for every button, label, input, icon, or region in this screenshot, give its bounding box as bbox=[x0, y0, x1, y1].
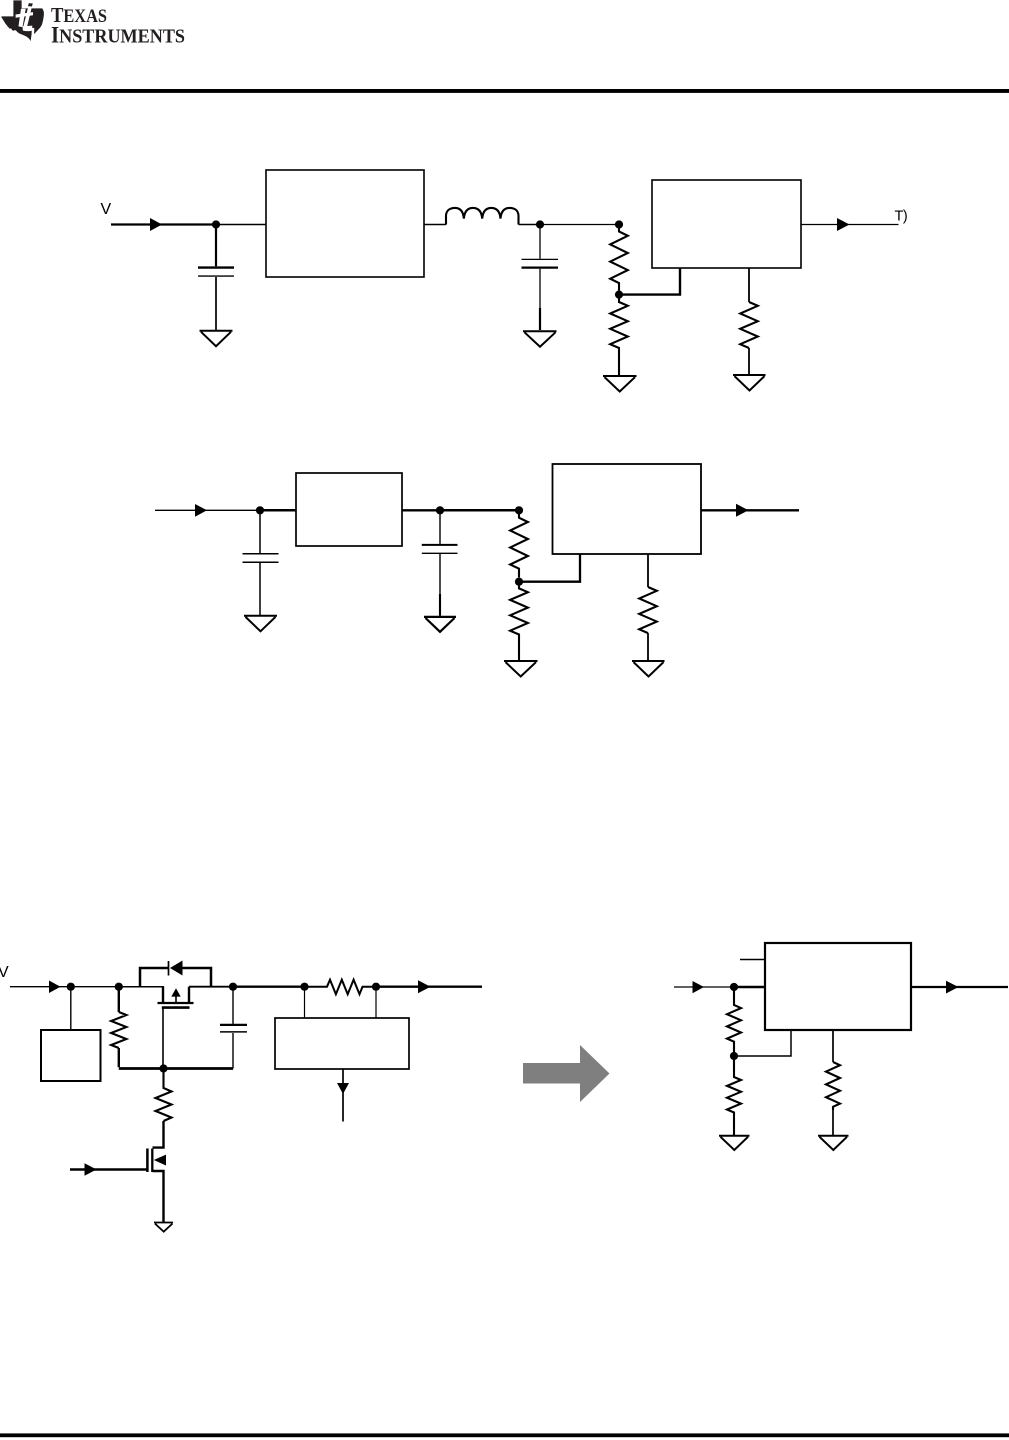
ground under C1 bbox=[200, 331, 233, 347]
wire output bbox=[376, 986, 482, 988]
wire body-diode branch left bbox=[140, 968, 168, 987]
top rule bbox=[0, 89, 1009, 93]
wire input bbox=[155, 509, 260, 511]
current output arrowhead bbox=[337, 1083, 349, 1094]
wire U2 bias to R3 bbox=[748, 268, 750, 302]
wire node to U1 bbox=[734, 986, 765, 989]
regulator box U2 bbox=[652, 180, 801, 268]
wire node to node bbox=[71, 986, 119, 988]
wire node to R1 bbox=[118, 987, 120, 1012]
capacitor C1 bbox=[198, 266, 234, 268]
wire C2 to ground bbox=[539, 269, 541, 308]
current sense box U2 bbox=[275, 1018, 409, 1069]
input arrowhead bbox=[49, 981, 61, 994]
wire sense right to box bbox=[375, 987, 377, 1018]
wire node to C1 bbox=[215, 225, 217, 267]
transistor Q1 PMOS source terminal bbox=[162, 987, 164, 1002]
transistor Q2 NMOS source bbox=[153, 1171, 164, 1222]
resistor R2 bbox=[727, 1056, 741, 1135]
wire gate rail bbox=[119, 1067, 233, 1070]
wire node to divider bbox=[440, 509, 519, 512]
enable stub bbox=[740, 959, 765, 961]
resistor R1 bbox=[510, 514, 528, 578]
svg-text:TEXAS: TEXAS bbox=[51, 3, 107, 27]
regulator box U2 bbox=[553, 464, 702, 554]
diode D1 body diode cathode bar bbox=[168, 961, 170, 976]
node sense right bbox=[372, 983, 380, 991]
resistor R2 bbox=[510, 582, 528, 660]
ground NMOS source bbox=[154, 1223, 173, 1232]
wire node to C2 bbox=[539, 225, 541, 259]
wire R3 to ground bbox=[748, 348, 750, 374]
svg-text:T): T) bbox=[895, 209, 908, 225]
capacitor C2 bbox=[522, 258, 559, 260]
node mid junction bbox=[436, 506, 444, 514]
wire node to control box bbox=[70, 987, 72, 1030]
ground under C2 bbox=[523, 331, 557, 347]
ground under R2 bbox=[504, 661, 538, 677]
wire U1 to L1 bbox=[424, 224, 446, 226]
transistor Q1 PMOS gate bar bbox=[162, 1006, 190, 1009]
node LC junction bbox=[536, 220, 544, 228]
filter box U1 bbox=[296, 473, 402, 546]
wire PMOS gate lead bbox=[162, 1008, 164, 1069]
capacitor C2 bbox=[422, 544, 458, 546]
node divider top bbox=[615, 220, 623, 228]
ground under R3 bbox=[632, 661, 665, 677]
transistor Q2 NMOS gate bar bbox=[146, 1149, 149, 1173]
node feedback junction bbox=[615, 291, 623, 299]
resistor R3 bbox=[740, 302, 758, 348]
wire output bbox=[801, 224, 899, 226]
wire U1 bias to R3 bbox=[832, 1030, 834, 1062]
wire node to U1 bbox=[216, 224, 266, 226]
wire node to C1 bbox=[259, 510, 261, 553]
resistor R3 gate pulldown bbox=[156, 1069, 172, 1122]
diode D1 body diode bbox=[170, 961, 183, 976]
transistor Q1 PMOS channel bar bbox=[158, 1002, 194, 1004]
node input junction bbox=[730, 983, 738, 991]
node cap junction bbox=[229, 983, 237, 991]
wire node to PMOS source bbox=[119, 986, 164, 988]
resistor R3 bbox=[639, 587, 657, 633]
wire node to C1 bbox=[232, 987, 234, 1024]
capacitor C1 bbox=[243, 553, 279, 555]
converter box U1 bbox=[266, 170, 424, 277]
wire output bbox=[911, 986, 1008, 988]
wire body-diode branch right bbox=[183, 968, 212, 987]
wire input bbox=[674, 986, 734, 988]
node input junction bbox=[67, 983, 75, 991]
resistor R2 bbox=[610, 295, 628, 375]
wire output bbox=[701, 509, 799, 511]
TI logo Texas-map bug bbox=[1, 0, 43, 41]
ground under R2 bbox=[719, 1136, 750, 1150]
ground under R2 bbox=[603, 376, 637, 392]
wire C2 to ground bbox=[439, 554, 441, 594]
node feedback junction bbox=[515, 578, 523, 586]
wire C1 to gate rail bbox=[232, 1033, 234, 1069]
wire U2 bias to R3 bbox=[647, 554, 649, 587]
output arrowhead bbox=[736, 504, 749, 517]
svg-text:V: V bbox=[101, 201, 112, 218]
wire R3 to NMOS drain bbox=[153, 1121, 164, 1148]
wire L1 to node bbox=[519, 224, 541, 226]
ground under R3 bbox=[733, 375, 766, 391]
output arrowhead bbox=[418, 980, 431, 993]
wire current output bbox=[342, 1069, 344, 1122]
bottom rule bbox=[0, 1433, 1009, 1437]
input arrowhead bbox=[693, 981, 705, 993]
resistor R1 bbox=[610, 228, 628, 291]
wire input bbox=[10, 986, 71, 988]
input arrowhead bbox=[195, 504, 207, 517]
wire sense left to box bbox=[304, 987, 306, 1018]
wire node to FB node bbox=[540, 224, 619, 226]
node sense left bbox=[300, 983, 308, 991]
regulator box U1 bbox=[765, 943, 911, 1030]
wire C1 to ground bbox=[215, 277, 217, 330]
wire input bbox=[111, 223, 216, 225]
wire feedback bbox=[519, 554, 580, 582]
ground under C1 bbox=[244, 616, 277, 632]
output arrowhead bbox=[946, 981, 959, 994]
ground under C2 bbox=[424, 617, 456, 632]
resistor R3 bbox=[826, 1062, 840, 1110]
svg-text:V: V bbox=[0, 964, 9, 981]
node input junction bbox=[212, 220, 220, 228]
svg-text:INSTRUMENTS: INSTRUMENTS bbox=[51, 23, 185, 48]
wire R3 to ground bbox=[647, 633, 649, 660]
wire rail PMOS to cap bbox=[189, 986, 233, 988]
transition arrow bbox=[523, 1045, 610, 1102]
node input junction bbox=[256, 506, 264, 514]
wire C1 to ground bbox=[259, 563, 261, 615]
wire R3 to ground bbox=[832, 1110, 834, 1135]
transistor Q2 NMOS channel bar bbox=[151, 1149, 153, 1173]
transistor Q1 PMOS drain terminal bbox=[188, 987, 190, 1002]
wire U1 to node bbox=[402, 509, 440, 511]
wire R1 to gate rail bbox=[118, 1048, 120, 1067]
input arrowhead bbox=[150, 218, 162, 231]
gate input arrowhead bbox=[85, 1163, 97, 1176]
resistor R2 sense bbox=[305, 980, 377, 995]
node gate rail junction bbox=[159, 1064, 167, 1072]
capacitor C1 bbox=[220, 1024, 247, 1026]
ground under R3 bbox=[818, 1136, 849, 1150]
wire node to U1 bbox=[260, 509, 296, 512]
inductor L1 bbox=[446, 208, 519, 225]
control box U1 bbox=[41, 1030, 101, 1081]
wire feedback bbox=[619, 268, 680, 295]
wire node to C2 bbox=[439, 510, 441, 544]
transistor Q1 PMOS body arrow bbox=[175, 996, 177, 1003]
transistor Q2 NMOS body arrow bbox=[154, 1155, 166, 1166]
resistor R1 gate pull-up bbox=[111, 1012, 126, 1048]
wire feedback bbox=[734, 1030, 791, 1056]
node divider top bbox=[515, 506, 523, 514]
wire rail cap to sense node bbox=[233, 986, 305, 988]
wire NMOS gate input bbox=[70, 1168, 147, 1170]
node pullup junction bbox=[115, 983, 123, 991]
output arrowhead bbox=[837, 218, 850, 231]
node feedback junction bbox=[730, 1052, 738, 1060]
resistor R1 bbox=[727, 987, 741, 1052]
